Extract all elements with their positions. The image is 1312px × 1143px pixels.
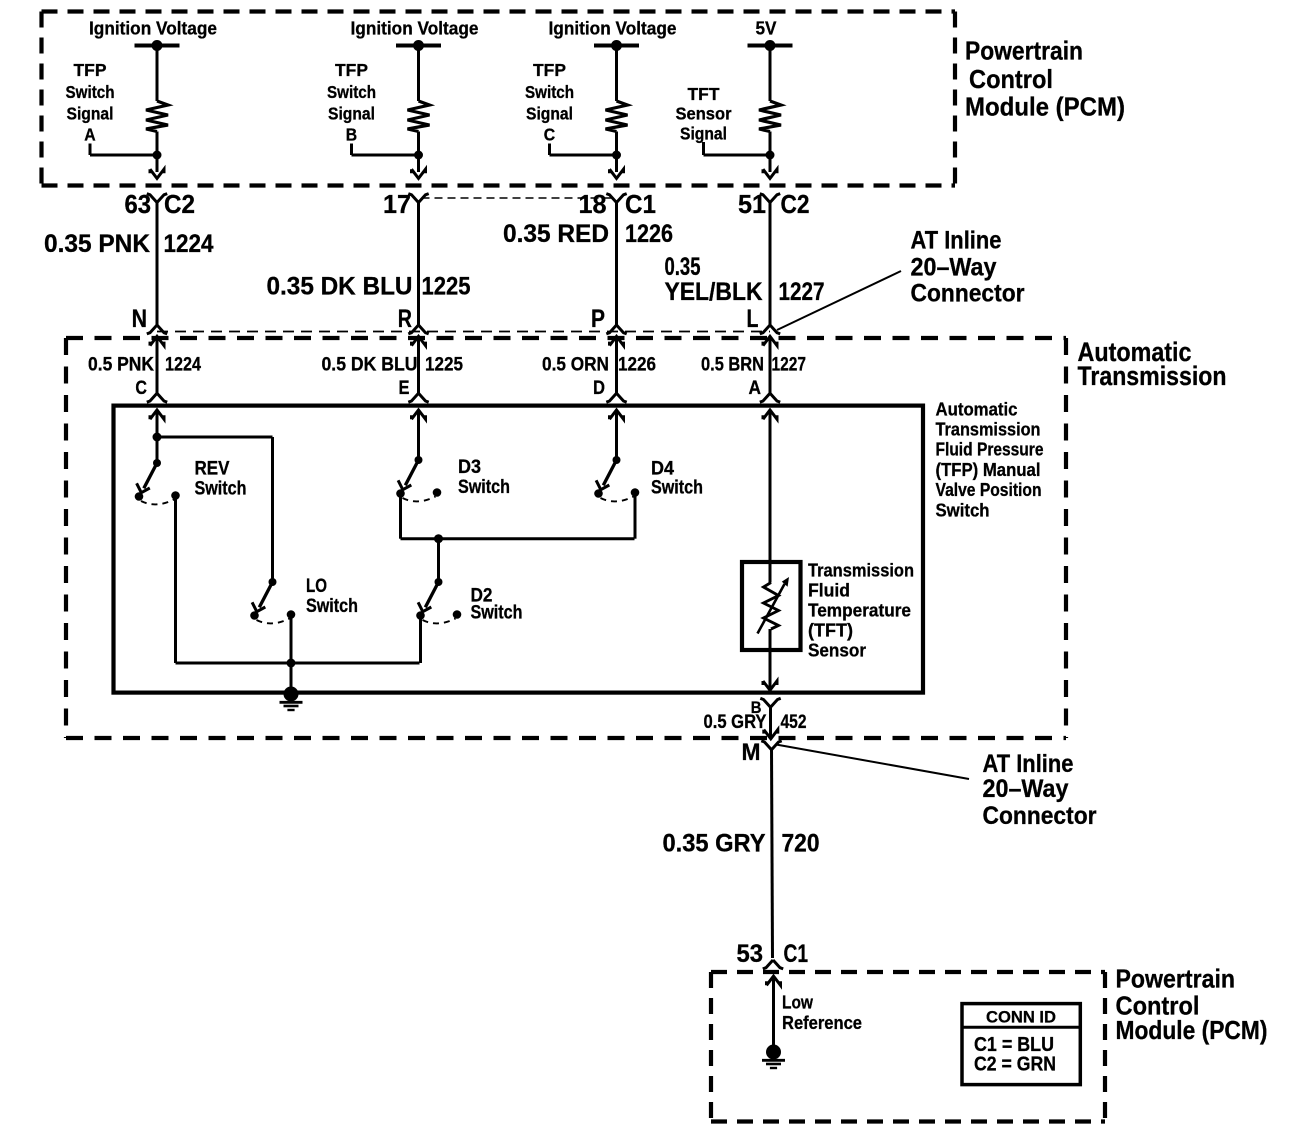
svg-text:(TFT): (TFT) <box>808 620 853 641</box>
svg-text:0.5 GRY: 0.5 GRY <box>704 711 767 733</box>
svg-text:Valve Position: Valve Position <box>936 480 1042 500</box>
svg-text:Temperature: Temperature <box>808 600 911 621</box>
svg-text:Ignition Voltage: Ignition Voltage <box>89 19 217 39</box>
svg-text:18: 18 <box>579 189 607 219</box>
svg-text:Signal: Signal <box>526 104 573 124</box>
svg-text:LO: LO <box>306 576 327 597</box>
svg-text:C: C <box>135 377 147 399</box>
svg-text:Switch: Switch <box>651 478 703 499</box>
svg-text:1224: 1224 <box>164 230 214 258</box>
svg-text:TFP: TFP <box>74 60 107 80</box>
svg-text:20–Way: 20–Way <box>983 775 1069 803</box>
svg-text:1225: 1225 <box>425 355 463 376</box>
svg-text:0.35 DK BLU: 0.35 DK BLU <box>267 273 413 301</box>
svg-text:0.35 RED: 0.35 RED <box>503 220 609 248</box>
svg-text:AT Inline: AT Inline <box>911 227 1002 255</box>
svg-text:Sensor: Sensor <box>808 640 866 661</box>
svg-text:AT Inline: AT Inline <box>983 750 1074 778</box>
svg-text:Connector: Connector <box>983 802 1097 830</box>
svg-text:(TFP) Manual: (TFP) Manual <box>936 460 1041 480</box>
svg-text:1226: 1226 <box>625 220 673 248</box>
svg-text:0.35 PNK: 0.35 PNK <box>44 230 150 258</box>
svg-text:Automatic: Automatic <box>936 400 1018 420</box>
svg-text:Switch: Switch <box>471 603 523 624</box>
svg-text:Powertrain: Powertrain <box>1116 964 1236 994</box>
svg-text:Transmission: Transmission <box>1078 361 1227 391</box>
svg-text:20–Way: 20–Way <box>911 254 997 282</box>
svg-text:Powertrain: Powertrain <box>965 36 1083 66</box>
svg-text:L: L <box>747 305 759 333</box>
svg-text:R: R <box>398 305 412 333</box>
svg-text:Control: Control <box>969 64 1053 94</box>
svg-text:D: D <box>593 377 605 399</box>
svg-text:D3: D3 <box>458 457 481 478</box>
svg-text:5V: 5V <box>756 19 777 39</box>
svg-text:A: A <box>84 125 96 145</box>
svg-text:53: 53 <box>737 940 764 968</box>
svg-text:0.5 BRN: 0.5 BRN <box>701 355 764 376</box>
svg-text:P: P <box>591 305 605 333</box>
svg-text:1227: 1227 <box>779 278 825 306</box>
svg-text:1225: 1225 <box>422 273 471 301</box>
svg-text:Ignition Voltage: Ignition Voltage <box>549 19 677 39</box>
svg-text:Signal: Signal <box>67 104 114 124</box>
svg-text:Low: Low <box>782 992 814 1013</box>
svg-text:Ignition Voltage: Ignition Voltage <box>351 19 479 39</box>
svg-text:Signal: Signal <box>680 124 727 144</box>
svg-text:Sensor: Sensor <box>676 104 732 124</box>
svg-text:Transmission: Transmission <box>936 420 1041 440</box>
svg-text:REV: REV <box>195 459 230 480</box>
svg-text:1224: 1224 <box>165 355 201 376</box>
svg-text:Reference: Reference <box>782 1012 862 1033</box>
svg-text:Switch: Switch <box>327 82 376 102</box>
svg-text:Switch: Switch <box>525 82 574 102</box>
svg-text:0.35: 0.35 <box>665 253 701 281</box>
svg-text:Module (PCM): Module (PCM) <box>1116 1015 1268 1045</box>
svg-text:D4: D4 <box>651 459 674 480</box>
svg-text:0.5 DK BLU: 0.5 DK BLU <box>322 355 418 376</box>
svg-text:0.5 ORN: 0.5 ORN <box>542 355 609 376</box>
svg-text:C1: C1 <box>625 189 656 219</box>
svg-text:17: 17 <box>383 189 411 219</box>
svg-text:Signal: Signal <box>328 104 375 124</box>
svg-text:Fluid Pressure: Fluid Pressure <box>936 440 1044 460</box>
svg-text:CONN ID: CONN ID <box>986 1008 1056 1027</box>
svg-text:M: M <box>742 739 761 766</box>
svg-text:C2 = GRN: C2 = GRN <box>974 1054 1056 1076</box>
svg-text:1227: 1227 <box>772 355 807 376</box>
svg-text:A: A <box>749 377 762 399</box>
svg-text:Fluid: Fluid <box>808 580 850 601</box>
svg-text:E: E <box>399 377 410 399</box>
svg-text:YEL/BLK: YEL/BLK <box>665 278 763 306</box>
svg-text:0.35 GRY: 0.35 GRY <box>663 830 766 858</box>
svg-text:C2: C2 <box>164 189 195 219</box>
svg-text:452: 452 <box>781 711 807 733</box>
svg-text:TFT: TFT <box>688 84 720 104</box>
svg-text:C: C <box>544 125 556 145</box>
svg-text:C2: C2 <box>781 189 810 219</box>
svg-text:Switch: Switch <box>306 596 358 617</box>
svg-text:720: 720 <box>782 830 820 858</box>
svg-text:0.5 PNK: 0.5 PNK <box>88 355 154 376</box>
svg-text:Transmission: Transmission <box>808 560 914 581</box>
svg-text:Switch: Switch <box>66 82 115 102</box>
svg-text:Switch: Switch <box>458 477 510 498</box>
svg-text:Connector: Connector <box>911 280 1025 308</box>
svg-text:Switch: Switch <box>195 478 247 499</box>
svg-text:C1: C1 <box>784 940 809 968</box>
svg-text:N: N <box>132 305 147 333</box>
svg-text:Module (PCM): Module (PCM) <box>965 92 1125 122</box>
svg-text:TFP: TFP <box>533 60 566 80</box>
svg-text:Switch: Switch <box>936 501 990 521</box>
svg-text:B: B <box>346 125 357 145</box>
svg-text:TFP: TFP <box>335 60 368 80</box>
svg-text:1226: 1226 <box>618 355 656 376</box>
